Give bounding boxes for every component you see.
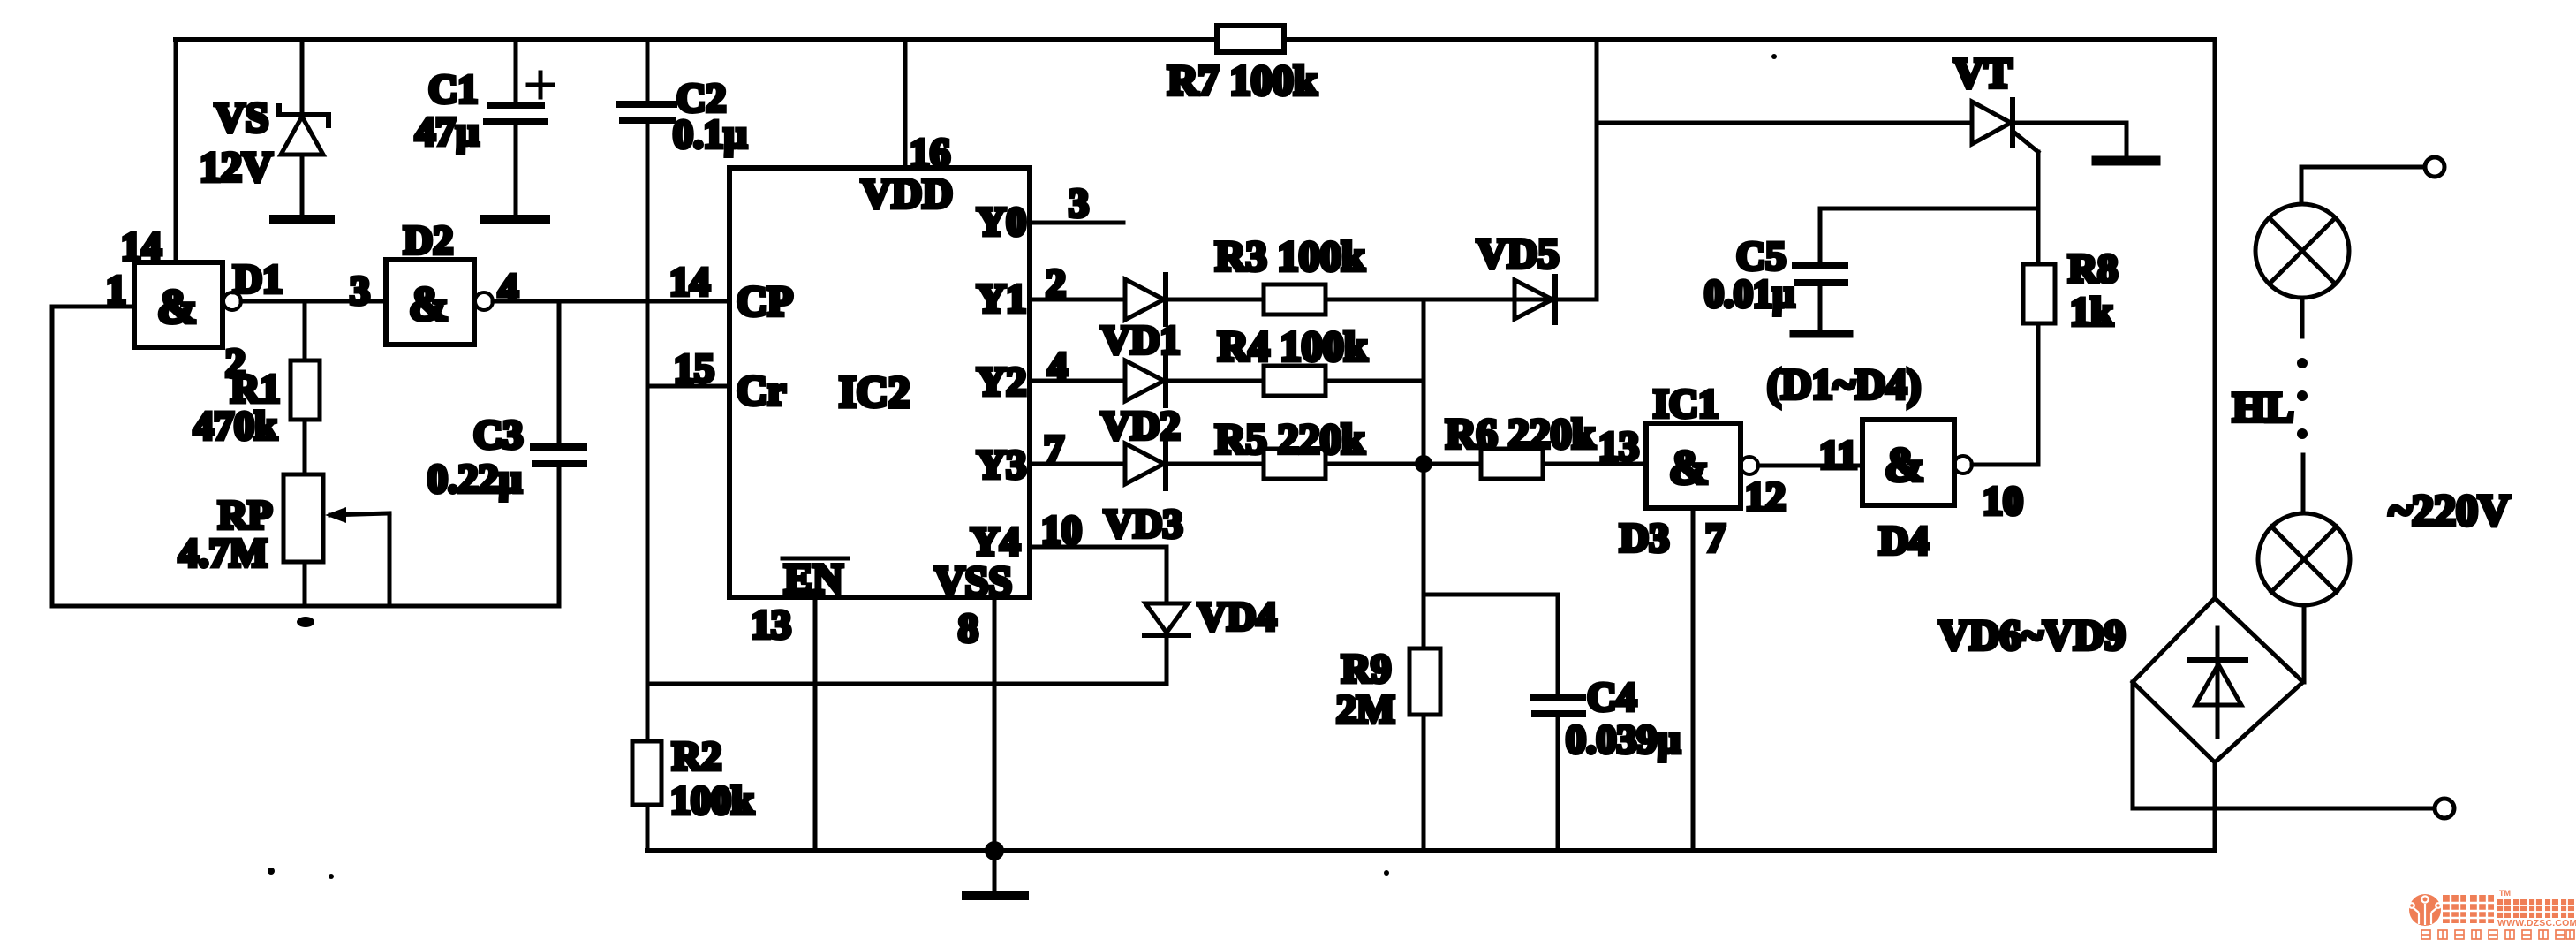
svg-text:2M: 2M xyxy=(1336,686,1394,732)
svg-text:3: 3 xyxy=(1069,180,1089,225)
terminal bar right of VT xyxy=(2096,156,2156,166)
wire VT right terminal bend xyxy=(2125,123,2129,157)
wire Y0 stub xyxy=(1030,221,1123,225)
svg-text:D2: D2 xyxy=(404,217,453,262)
svg-text:47µ: 47µ xyxy=(415,109,480,154)
wire bridge bottom corner to bottom rail xyxy=(2213,762,2217,851)
wire top power rail xyxy=(176,37,2215,42)
wire Y1 row xyxy=(1030,298,1125,302)
wire bridge left corner down and right to terminal xyxy=(2133,682,2435,808)
ink blob under RP bottom wire xyxy=(297,617,314,627)
svg-text:13: 13 xyxy=(751,602,791,647)
svg-text:R7 100k: R7 100k xyxy=(1167,57,1318,104)
svg-text:~220V: ~220V xyxy=(2389,485,2510,534)
svg-text:C3: C3 xyxy=(473,412,523,457)
svg-text:&: & xyxy=(409,277,449,330)
svg-text:12: 12 xyxy=(1745,474,1786,519)
resistor R6 220k xyxy=(1481,449,1646,479)
node junction dot VSS ground xyxy=(985,841,1004,860)
svg-text:R2: R2 xyxy=(672,733,721,778)
wire Y3 row xyxy=(1030,462,1125,466)
wire D1 output to D2 input xyxy=(241,299,386,304)
svg-text:Y2: Y2 xyxy=(977,359,1026,404)
terminal top right xyxy=(2425,157,2444,177)
watermark logo 维库电子市场网 xyxy=(2409,889,2576,939)
svg-text:R4 100k: R4 100k xyxy=(1218,323,1368,370)
svg-text:15: 15 xyxy=(674,345,714,390)
svg-text:1k: 1k xyxy=(2070,289,2113,334)
svg-text:VD2: VD2 xyxy=(1101,403,1180,448)
svg-text:14: 14 xyxy=(669,259,710,304)
ground main (under VSS) xyxy=(966,851,1024,896)
svg-text:VD5: VD5 xyxy=(1477,231,1559,277)
svg-text:16: 16 xyxy=(910,130,950,175)
lamp HL bottom xyxy=(2258,513,2350,682)
svg-text:&: & xyxy=(1885,438,1924,491)
dots between lamps xyxy=(2297,358,2308,368)
resistor R8 1k xyxy=(2023,152,2055,465)
wire D2 output to IC2 CP xyxy=(493,299,729,304)
resistor R5 220k xyxy=(1264,449,1481,479)
wire D1 input pin1 xyxy=(52,305,134,309)
svg-text:0.01µ: 0.01µ xyxy=(1704,272,1794,315)
svg-text:R9: R9 xyxy=(1341,646,1391,691)
wire D4 output to R8 xyxy=(1972,463,2038,467)
svg-text:0.22µ: 0.22µ xyxy=(427,456,522,501)
capacitor C4 0.039µ xyxy=(1424,595,1583,851)
diode VD1 xyxy=(1125,275,1264,324)
wire EN pin13 down xyxy=(813,597,818,851)
svg-text:IC2: IC2 xyxy=(839,367,910,416)
node junction dot xyxy=(1415,455,1432,473)
diode VD4 (pointing down) xyxy=(1144,603,1189,684)
resistor R7 100k on top rail xyxy=(1217,26,1284,52)
wire Cr pin15 xyxy=(647,384,729,389)
svg-text:VT: VT xyxy=(1953,50,2013,97)
IC2 box xyxy=(729,168,1030,597)
svg-text:(D1~D4): (D1~D4) xyxy=(1767,361,1921,408)
svg-text:13: 13 xyxy=(1598,423,1639,468)
nand gate D4 xyxy=(1862,420,1972,505)
svg-text:14: 14 xyxy=(121,224,162,269)
resistor R9 2M xyxy=(1409,648,1440,851)
svg-text:Y4: Y4 xyxy=(971,519,1020,564)
capacitor C2 0.1µ xyxy=(620,40,674,120)
resistor R4 100k xyxy=(1264,366,1424,396)
wire vertical from top rail to VD5 xyxy=(1595,40,1599,299)
wire terminal to lamp1 xyxy=(2301,167,2424,204)
resistor R3 100k xyxy=(1264,284,1597,315)
ground under C5 xyxy=(1794,330,1849,338)
bridge rectifier VD6~VD9 xyxy=(2133,598,2303,762)
svg-text:8: 8 xyxy=(958,605,978,650)
svg-text:10: 10 xyxy=(1983,478,2023,523)
svg-text:0.039µ: 0.039µ xyxy=(1566,716,1681,762)
wire Y4 pin10 xyxy=(1030,547,1167,603)
wire rail to VT anode xyxy=(1597,121,1972,125)
terminal bottom right xyxy=(2435,799,2454,818)
svg-text:C4: C4 xyxy=(1587,674,1636,719)
svg-text:11: 11 xyxy=(1819,432,1857,477)
svg-text:R3 100k: R3 100k xyxy=(1215,233,1365,280)
diode VD5 xyxy=(1515,277,1597,322)
nand gate D3 (IC1) xyxy=(1646,423,1758,508)
svg-text:&: & xyxy=(1669,441,1709,494)
svg-text:Y0: Y0 xyxy=(977,199,1026,244)
wire bottom rail xyxy=(647,848,2215,853)
svg-text:&: & xyxy=(157,280,197,333)
nand gate D2 xyxy=(386,260,493,345)
wire main vertical line x=733 (C2 to Cr, down to R2) xyxy=(646,122,650,741)
svg-text:WWW.DZSC.COM: WWW.DZSC.COM xyxy=(2497,918,2576,929)
svg-text:IC1: IC1 xyxy=(1653,381,1719,426)
wire left vertical to D1 pin14 xyxy=(174,40,178,262)
wire VDD pin16 to top rail xyxy=(903,40,908,168)
diode VD2 xyxy=(1125,356,1264,406)
resistor R1 470k xyxy=(291,301,320,474)
lamp HL top xyxy=(2255,204,2349,337)
svg-text:470k: 470k xyxy=(193,403,277,448)
svg-text:VD4: VD4 xyxy=(1197,594,1276,639)
wire right vertical from top rail to bridge xyxy=(2213,40,2217,598)
resistor R2 100k xyxy=(632,741,661,851)
wire VSS pin8 down xyxy=(993,597,997,851)
nand gate D1 xyxy=(134,262,241,347)
wire C3 riser xyxy=(557,466,562,606)
svg-text:VS: VS xyxy=(215,95,268,141)
svg-text:4.7M: 4.7M xyxy=(178,530,268,575)
svg-text:100k: 100k xyxy=(670,777,754,822)
wire dots to lamp2 xyxy=(2301,455,2306,513)
ground under C1 xyxy=(485,215,546,224)
svg-text:Y1: Y1 xyxy=(977,276,1026,321)
svg-text:7: 7 xyxy=(1705,515,1726,560)
svg-text:Y3: Y3 xyxy=(977,442,1026,487)
thyristor VT xyxy=(1972,100,2127,152)
wire D3 output to D4 input xyxy=(1758,464,1862,468)
svg-text:3: 3 xyxy=(350,268,370,313)
capacitor C3 0.22µ xyxy=(533,301,584,464)
svg-text:D3: D3 xyxy=(1620,515,1669,560)
ground under VS xyxy=(274,215,330,224)
svg-text:R6 220k: R6 220k xyxy=(1446,411,1596,458)
wire D3 pin7 down to bottom rail xyxy=(1691,508,1696,851)
wire feedback loop left vertical xyxy=(50,307,55,606)
svg-text:VD6~VD9: VD6~VD9 xyxy=(1938,612,2126,659)
wire node vertical xyxy=(1422,299,1426,648)
svg-text:CP: CP xyxy=(737,278,793,325)
svg-text:0.1µ: 0.1µ xyxy=(673,111,747,156)
svg-text:VDD: VDD xyxy=(861,171,953,217)
svg-text:VSS: VSS xyxy=(934,558,1012,605)
svg-text:R5 220k: R5 220k xyxy=(1215,416,1365,463)
potentiometer RP 4.7M xyxy=(283,474,389,606)
zener diode VS 12V xyxy=(279,40,329,216)
svg-text:Cr: Cr xyxy=(737,368,786,414)
scan speckles xyxy=(268,868,275,875)
wire Y2 row xyxy=(1030,379,1125,383)
capacitor C5 0.01µ xyxy=(1795,208,2038,330)
svg-text:TM: TM xyxy=(2499,889,2511,898)
svg-text:VD3: VD3 xyxy=(1104,501,1182,546)
svg-text:R8: R8 xyxy=(2068,246,2118,291)
svg-text:D1: D1 xyxy=(233,256,283,301)
svg-text:VD1: VD1 xyxy=(1101,317,1180,362)
wire feedback loop bottom xyxy=(52,604,559,609)
svg-text:C1: C1 xyxy=(428,66,478,111)
wire VD4 bottom to main vertical xyxy=(647,682,1167,686)
svg-text:12V: 12V xyxy=(200,144,273,191)
diode VD3 xyxy=(1125,439,1264,489)
svg-text:D4: D4 xyxy=(1879,518,1929,563)
capacitor C1 47µ (polarized) xyxy=(487,40,553,216)
svg-text:HL: HL xyxy=(2232,384,2293,431)
